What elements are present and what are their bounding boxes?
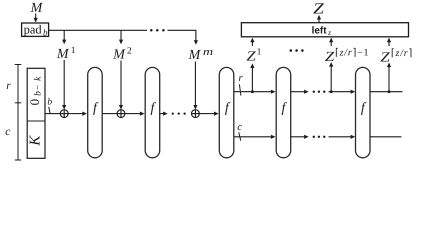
svg-text:b: b bbox=[33, 91, 43, 96]
arrow Z^(z/r) into box bbox=[387, 38, 391, 46]
svg-text:2: 2 bbox=[127, 46, 132, 56]
arrow box to Z bbox=[317, 15, 321, 23]
arrow c lane into f5 bbox=[329, 135, 356, 139]
svg-text:Z: Z bbox=[313, 1, 324, 18]
box left_z bbox=[241, 23, 408, 37]
arrow xor3 to f3 bbox=[199, 112, 218, 116]
arrow drop to M^2 label bbox=[119, 30, 123, 44]
arrow f4 right r lane bbox=[291, 90, 309, 94]
dots between Z labels bbox=[290, 49, 304, 52]
label 0^(b-k) rotated bbox=[27, 76, 43, 106]
tick c on lane bbox=[239, 132, 241, 140]
arrow M^m into xor3 bbox=[193, 62, 197, 110]
arrow r lane into f5 bbox=[329, 90, 356, 94]
arrow M^2 into xor2 bbox=[119, 61, 123, 110]
svg-text:0: 0 bbox=[27, 99, 42, 106]
xor X2 bbox=[117, 110, 125, 118]
arrow tap1 up to Z^1 label bbox=[250, 63, 254, 91]
wire r lane f3 to f4 bbox=[234, 90, 276, 94]
svg-text:pad: pad bbox=[24, 23, 43, 37]
svg-text:b: b bbox=[47, 98, 52, 108]
permutation f3 bbox=[219, 67, 234, 157]
dots c lane bbox=[313, 136, 326, 138]
dots r lane bbox=[313, 91, 326, 93]
wire r lane out of f5 bbox=[370, 91, 403, 93]
svg-text:M: M bbox=[56, 47, 70, 62]
svg-text:1: 1 bbox=[71, 46, 76, 56]
arrowhead down to M^m label bbox=[194, 40, 198, 45]
permutation f2 bbox=[145, 67, 160, 157]
wire distribution line right segment bbox=[168, 30, 196, 40]
arrow drop to M^1 label bbox=[62, 30, 66, 44]
svg-text:r: r bbox=[6, 80, 11, 92]
svg-text:b: b bbox=[43, 27, 48, 37]
svg-text:M: M bbox=[188, 48, 202, 63]
wire c lane out of f5 bbox=[370, 136, 402, 138]
dots on distribution line bbox=[150, 29, 165, 32]
divider between 0^(b-k) and K bbox=[27, 120, 45, 122]
arrow xor1 to f1 bbox=[68, 112, 87, 116]
svg-text:⌈z/r⌉: ⌈z/r⌉ bbox=[391, 48, 413, 59]
xor X3 bbox=[192, 110, 200, 118]
wire f1 to xor2 bbox=[102, 113, 117, 115]
permutation f5 bbox=[356, 67, 371, 157]
tick b on wire bbox=[49, 107, 51, 114]
arrow tap3 up to Z^(z/r) label bbox=[387, 63, 391, 92]
permutation f4 bbox=[276, 67, 291, 157]
svg-text:m: m bbox=[203, 47, 214, 58]
svg-text:c: c bbox=[237, 122, 242, 133]
brace r/c at left bbox=[15, 65, 21, 161]
svg-text:M: M bbox=[112, 47, 126, 62]
wire state to xor1 bbox=[45, 113, 60, 115]
arrow M into pad bbox=[34, 14, 38, 23]
svg-text:1: 1 bbox=[257, 48, 262, 58]
arrow f2 right bbox=[160, 112, 168, 116]
wire c lane f3 to f4 bbox=[234, 135, 276, 139]
arrow M^1 into xor1 bbox=[62, 60, 66, 110]
svg-text:K: K bbox=[28, 135, 44, 147]
arrow Z^1 into box bbox=[250, 38, 254, 46]
svg-text:M: M bbox=[30, 1, 44, 16]
svg-text:−: − bbox=[33, 85, 43, 90]
arrow xor2 to f2 bbox=[125, 112, 145, 116]
svg-text:Z: Z bbox=[325, 50, 335, 65]
permutation f1 bbox=[88, 67, 103, 157]
arrow tap2 up to Z^(z/r)-1 label bbox=[329, 62, 333, 92]
arrow Z^(z/r)-1 into box bbox=[329, 38, 333, 46]
junction node Z1 tap bbox=[251, 90, 254, 93]
svg-text:c: c bbox=[5, 126, 10, 138]
svg-text:Z: Z bbox=[246, 49, 256, 64]
junction node Z tap 3 bbox=[388, 90, 391, 93]
svg-text:left: left bbox=[312, 25, 328, 36]
xor X1 bbox=[60, 110, 68, 118]
svg-text:⌈z/r⌉−1: ⌈z/r⌉−1 bbox=[335, 48, 369, 59]
initial state box bbox=[27, 68, 45, 158]
dots absorb lane bbox=[172, 112, 186, 114]
arrow f4 right c lane bbox=[291, 135, 309, 139]
box pad_b bbox=[22, 23, 49, 36]
svg-text:Z: Z bbox=[380, 51, 390, 66]
wire distribution line from pad bbox=[49, 29, 147, 31]
junction node Z tap 2 bbox=[330, 90, 333, 93]
tick r on lane bbox=[239, 84, 241, 95]
